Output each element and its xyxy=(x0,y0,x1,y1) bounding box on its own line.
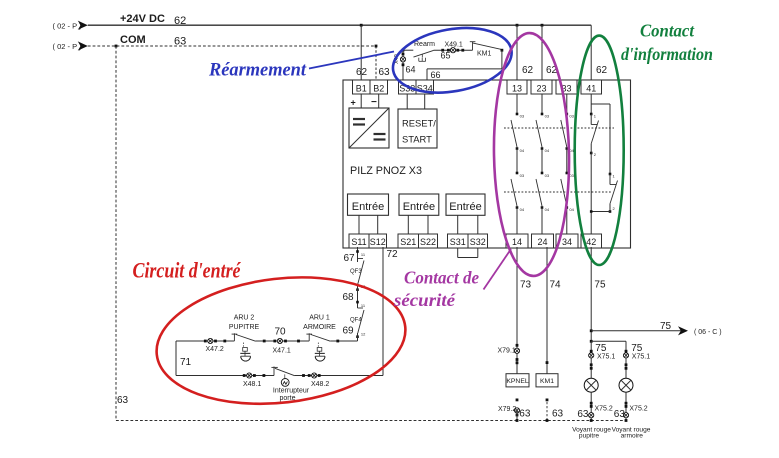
relay coil KPNEL xyxy=(506,374,529,387)
wire 73 from 14 xyxy=(517,247,532,374)
annotation ellipse Circuit d entre (red) xyxy=(150,265,412,417)
svg-text:11: 11 xyxy=(361,252,366,257)
svg-text:S32: S32 xyxy=(470,237,486,247)
svg-text:2: 2 xyxy=(594,152,597,157)
svg-text:13: 13 xyxy=(512,83,522,93)
connector X47.1 xyxy=(273,338,300,354)
wire B2 to power unit xyxy=(371,94,379,108)
svg-text:PUPITRE: PUPITRE xyxy=(229,324,260,331)
contact pair 23-24 (NO safety contacts) xyxy=(536,94,550,234)
wire Entree3 to S31 xyxy=(457,215,459,234)
svg-text:Réarmement: Réarmement xyxy=(208,59,307,80)
svg-text:73: 73 xyxy=(520,280,532,291)
annotation ellipse Contact d information (green) xyxy=(575,36,624,265)
svg-text:( 02 - P ): ( 02 - P ) xyxy=(53,21,83,30)
svg-text:63: 63 xyxy=(552,409,564,420)
svg-text:X75.2: X75.2 xyxy=(595,406,613,413)
annotation pointer line (blue) xyxy=(309,52,394,69)
relay block PILZ PNOZ X3 outline xyxy=(343,80,631,248)
terminal B1 xyxy=(353,80,371,94)
svg-text:03: 03 xyxy=(545,173,550,178)
svg-text:Contact: Contact xyxy=(640,20,694,41)
input unit Entree 1 xyxy=(348,194,389,215)
svg-text:B2: B2 xyxy=(373,83,384,93)
svg-text:ARU 2: ARU 2 xyxy=(234,315,255,322)
svg-text:pupitre: pupitre xyxy=(579,432,599,439)
terminal 41 xyxy=(581,80,602,94)
svg-text:03: 03 xyxy=(520,114,525,119)
terminal S33 xyxy=(399,80,417,94)
svg-text:41: 41 xyxy=(586,83,596,93)
wire 67 from S11 xyxy=(344,247,366,264)
svg-text:X79.2: X79.2 xyxy=(498,406,516,413)
label Voyant rouge armoire xyxy=(612,427,651,440)
svg-text:63: 63 xyxy=(174,36,186,48)
wire 71 left vertical xyxy=(176,341,192,376)
connector X75.2 (armoire) xyxy=(614,392,648,420)
svg-text:−: − xyxy=(371,97,377,108)
svg-text:d'information: d'information xyxy=(621,43,713,64)
connector X75.1 (pupitre) xyxy=(589,350,616,370)
svg-text:KM1: KM1 xyxy=(540,378,554,385)
wire COM left dashed drop (net 63) xyxy=(115,45,129,421)
wire 62 drop to terminal 13 xyxy=(516,24,534,80)
annotation label Contact de securite (purple) xyxy=(393,267,479,310)
contact pair 33-34 (NO safety contacts) xyxy=(561,94,575,234)
annotation label Rearmement (blue) xyxy=(208,59,307,80)
svg-text:S12: S12 xyxy=(370,237,386,247)
svg-text:X79.1: X79.1 xyxy=(498,348,516,355)
wire jumper S31-S32 xyxy=(458,248,478,258)
svg-text:67: 67 xyxy=(344,253,356,264)
wire 68 xyxy=(343,284,366,308)
svg-text:S21: S21 xyxy=(400,237,416,247)
svg-text:1: 1 xyxy=(613,174,616,179)
wire 41 column xyxy=(590,94,592,114)
svg-text:armoire: armoire xyxy=(621,432,644,439)
svg-text:S22: S22 xyxy=(420,237,436,247)
wire B1 to power unit xyxy=(351,94,362,108)
svg-text:X48.1: X48.1 xyxy=(243,381,261,388)
terminal S11 xyxy=(349,234,369,248)
node (02-P) COM source arrow xyxy=(53,41,88,50)
svg-text:Entrée: Entrée xyxy=(449,201,481,213)
svg-text:04: 04 xyxy=(520,148,525,153)
wire door row (segment left) xyxy=(176,375,274,377)
svg-text:( 06 - C ): ( 06 - C ) xyxy=(694,329,722,336)
svg-text:2: 2 xyxy=(613,206,616,211)
connector X79.1 xyxy=(498,344,520,364)
wire 62 drop to terminal 23 xyxy=(541,24,558,80)
connector X79.2 xyxy=(498,399,531,421)
svg-text:70: 70 xyxy=(275,327,287,338)
svg-text:B1: B1 xyxy=(356,83,367,93)
svg-text:11: 11 xyxy=(361,303,366,308)
breaker aux contact QF3 (NC) xyxy=(350,259,366,292)
node (02-P) +24V source arrow xyxy=(53,21,88,31)
svg-text:72: 72 xyxy=(387,249,399,260)
svg-text:1: 1 xyxy=(594,114,597,119)
connector X49 (to S33) with label 64 xyxy=(394,49,416,80)
svg-text:63: 63 xyxy=(577,409,589,420)
contact 41-42 NC (right) xyxy=(590,173,618,213)
terminal B2 xyxy=(370,80,388,94)
terminal 13 xyxy=(507,80,527,94)
terminal 14 xyxy=(506,234,528,248)
svg-text:sécurité: sécurité xyxy=(393,289,456,310)
wire COM bottom rail 63 (dashed) xyxy=(116,419,627,422)
terminal 33 xyxy=(556,80,577,94)
svg-text:ARU 1: ARU 1 xyxy=(309,315,330,322)
svg-text:75: 75 xyxy=(660,321,672,332)
svg-text:66: 66 xyxy=(431,70,441,80)
wire rearm row mid segment xyxy=(434,49,473,51)
wire door row (segment right) xyxy=(295,375,383,377)
svg-text:KPNEL: KPNEL xyxy=(506,378,529,385)
wire 62 drop to terminal 41 xyxy=(591,25,607,80)
wire 75 from 42 xyxy=(591,247,606,341)
svg-text:X47.1: X47.1 xyxy=(273,348,291,355)
wire 41 right branch xyxy=(591,104,610,174)
svg-text:62: 62 xyxy=(596,65,608,76)
svg-text:+24V DC: +24V DC xyxy=(120,13,165,25)
wire 70 row segment xyxy=(256,327,310,343)
power supply unit (DC symbol) xyxy=(349,108,389,148)
svg-text:03: 03 xyxy=(569,114,574,119)
svg-text:X47.2: X47.2 xyxy=(206,346,224,353)
wire 74 from 24 xyxy=(546,247,561,374)
svg-text:Rearm: Rearm xyxy=(414,41,435,48)
wire row to QF chain xyxy=(330,340,357,343)
connector X75.2 (pupitre) xyxy=(577,392,613,420)
terminal S32 xyxy=(468,234,488,248)
svg-text:04: 04 xyxy=(569,207,574,212)
terminal S21 xyxy=(398,234,419,248)
wire Entree2 to S22 xyxy=(427,215,429,234)
wire S33 to reset unit xyxy=(406,94,408,109)
svg-text:X75.2: X75.2 xyxy=(629,406,647,413)
svg-text:RESET/: RESET/ xyxy=(402,118,436,129)
svg-text:62: 62 xyxy=(522,65,534,76)
svg-text:X75.1: X75.1 xyxy=(597,354,615,361)
svg-text:42: 42 xyxy=(586,237,596,247)
svg-text:03: 03 xyxy=(545,114,550,119)
annotation ellipse Rearmement (blue) xyxy=(388,19,517,101)
terminal S34 xyxy=(416,80,434,94)
svg-text:PILZ PNOZ X3: PILZ PNOZ X3 xyxy=(350,165,422,177)
connector X49.1 with label 65 xyxy=(441,42,465,61)
svg-text:65: 65 xyxy=(441,51,451,61)
svg-text:24: 24 xyxy=(537,237,547,247)
wire Entree2 to S21 xyxy=(407,215,409,234)
wire Entree1 to S12 xyxy=(377,215,379,234)
contactor coil KM1 xyxy=(536,374,558,387)
svg-text:69: 69 xyxy=(343,326,355,337)
svg-text:( 02 - P ): ( 02 - P ) xyxy=(53,42,83,51)
wire 69 to e-stop row xyxy=(343,326,358,342)
input unit Entree 2 xyxy=(399,194,439,215)
wire branch to lamps xyxy=(590,340,626,343)
wire 75 branch to (06-C) xyxy=(590,321,722,336)
mechanical linkage (lower dashed) xyxy=(504,191,612,193)
svg-text:23: 23 xyxy=(536,83,546,93)
wire COM rail 63 (dashed) xyxy=(88,34,376,48)
wire lamp 2 drop xyxy=(626,341,643,378)
connector X47.2 xyxy=(204,338,226,353)
wire Entree3 to S32 xyxy=(477,215,479,234)
svg-text:04: 04 xyxy=(545,148,550,153)
input unit Entree 3 xyxy=(446,194,485,215)
svg-text:Interrupteur: Interrupteur xyxy=(273,387,310,394)
mechanical linkage (upper dashed) xyxy=(504,127,614,129)
contact pair 13-14 (NO safety contacts) xyxy=(511,94,525,234)
wire lamp 1 drop xyxy=(591,341,607,378)
svg-text:Entrée: Entrée xyxy=(403,201,435,213)
indicator lamp Voyant rouge pupitre xyxy=(584,378,598,392)
svg-text:X75.1: X75.1 xyxy=(632,354,650,361)
wire rearm row left segment xyxy=(403,49,413,51)
svg-text:X48.2: X48.2 xyxy=(311,381,329,388)
svg-text:71: 71 xyxy=(180,357,192,368)
door switch Interrupteur porte (NC) xyxy=(271,367,309,403)
svg-text:04: 04 xyxy=(545,207,550,212)
label PILZ PNOZ X3 xyxy=(350,165,422,177)
svg-text:64: 64 xyxy=(406,65,416,75)
pushbutton Rearm (NO) xyxy=(414,41,436,61)
wire Entree1 to S11 xyxy=(358,215,360,234)
svg-text:75: 75 xyxy=(595,343,607,354)
svg-text:75: 75 xyxy=(594,280,606,291)
terminal 23 xyxy=(531,80,552,94)
svg-text:S31: S31 xyxy=(450,237,466,247)
wire KM1 to 63 rail (dashed) xyxy=(546,399,564,421)
terminal S22 xyxy=(419,234,438,248)
wire 66 return to S34 xyxy=(427,50,502,80)
svg-text:KM1: KM1 xyxy=(477,51,492,58)
svg-text:63: 63 xyxy=(614,409,626,420)
terminal 42 xyxy=(581,234,602,248)
e-stop button ARU 2 PUPITRE (NC) xyxy=(229,315,260,362)
terminal S31 xyxy=(448,234,469,248)
annotation ellipse Contact de securite (purple) xyxy=(492,32,571,276)
reset unit RESET/START xyxy=(398,109,437,148)
annotation pointer line (purple) xyxy=(484,249,512,290)
svg-text:Circuit d'entré: Circuit d'entré xyxy=(133,258,242,283)
connector X48.1 xyxy=(243,373,265,388)
svg-text:68: 68 xyxy=(343,292,355,303)
contact 41-42 NC (left) xyxy=(590,113,599,234)
label Voyant rouge pupitre xyxy=(572,427,611,440)
svg-text:63: 63 xyxy=(117,395,129,406)
svg-text:34: 34 xyxy=(562,237,572,247)
svg-text:03: 03 xyxy=(520,173,525,178)
e-stop button ARU 1 ARMOIRE (NC) xyxy=(303,315,336,362)
wire +24V DC rail 62 xyxy=(88,13,591,27)
svg-text:12: 12 xyxy=(361,332,366,337)
terminal 34 xyxy=(556,234,578,248)
terminal 24 xyxy=(532,234,554,248)
annotation label Contact d information (green) xyxy=(621,20,713,64)
svg-text:63: 63 xyxy=(519,409,531,420)
wire 62 drop to B1 xyxy=(356,24,368,80)
svg-text:04: 04 xyxy=(520,207,525,212)
annotation label Circuit d entre (red) xyxy=(133,258,242,283)
indicator lamp Voyant rouge armoire xyxy=(619,378,633,392)
wire e-stop row (segment left) xyxy=(176,340,234,342)
svg-text:62: 62 xyxy=(356,67,368,78)
connector X48.2 xyxy=(302,373,329,388)
breaker aux contact QF4 (NC) xyxy=(350,308,366,338)
svg-text:74: 74 xyxy=(550,280,562,291)
connector X75.1 (armoire) xyxy=(623,350,650,370)
svg-text:S11: S11 xyxy=(351,237,366,247)
svg-text:+: + xyxy=(351,98,356,108)
svg-text:ARMOIRE: ARMOIRE xyxy=(303,324,336,331)
svg-text:Contact de: Contact de xyxy=(404,267,479,288)
svg-text:75: 75 xyxy=(631,343,643,354)
wire S34 to reset unit xyxy=(424,94,426,109)
contact KM1 (NO, feedback) xyxy=(470,42,504,58)
svg-text:Entrée: Entrée xyxy=(352,201,384,213)
svg-text:14: 14 xyxy=(512,237,522,247)
terminal S12 xyxy=(369,234,387,248)
svg-text:63: 63 xyxy=(379,67,391,78)
svg-text:START: START xyxy=(402,134,432,145)
svg-text:62: 62 xyxy=(174,15,186,27)
wire 72 from S12 xyxy=(383,247,398,376)
wire 63 dashed drop to B2 xyxy=(375,45,390,80)
svg-text:COM: COM xyxy=(120,34,146,46)
